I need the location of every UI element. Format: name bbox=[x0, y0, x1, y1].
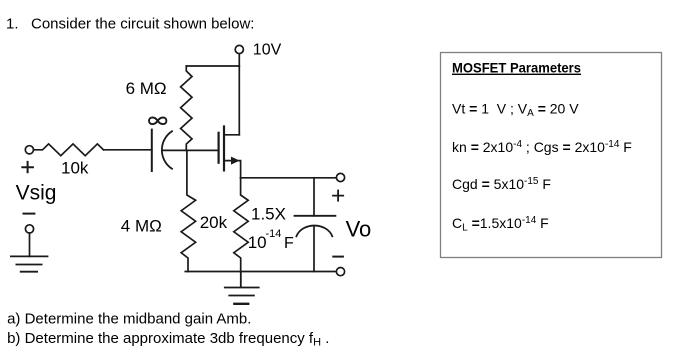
box border bbox=[441, 53, 662, 258]
capacitor CL curved bottom plate bbox=[296, 226, 332, 237]
svg-text:a) Determine the midband gain: a) Determine the midband gain Amb. bbox=[7, 311, 251, 328]
svg-text:6 MΩ: 6 MΩ bbox=[126, 79, 167, 98]
svg-text:20k: 20k bbox=[200, 213, 228, 232]
wire output horizontal bbox=[241, 177, 337, 179]
capacitor Cin infinity left plate bbox=[151, 130, 153, 171]
bottom questions text bbox=[7, 304, 329, 348]
svg-text:10V: 10V bbox=[253, 41, 282, 58]
wire gate horizontal from capacitor to gate bbox=[163, 149, 218, 151]
svg-text:10k: 10k bbox=[61, 159, 89, 178]
plus sign output bbox=[333, 191, 343, 201]
capacitor CL top wire bbox=[313, 178, 315, 216]
resistor R3 20k vertical zigzag bbox=[234, 178, 248, 272]
svg-text:10: 10 bbox=[248, 233, 267, 252]
wire bottom rail bbox=[185, 271, 336, 273]
node input lower terminal circle bbox=[25, 225, 33, 233]
node VDD terminal circle 10V bbox=[235, 45, 243, 53]
ground input bbox=[11, 256, 48, 271]
svg-text:4 MΩ: 4 MΩ bbox=[121, 217, 162, 236]
node output terminal top circle bbox=[336, 173, 344, 181]
svg-text:Vt = 1 V ; VA = 20 V: Vt = 1 V ; VA = 20 V bbox=[452, 100, 579, 119]
MOSFET parameters box bbox=[441, 53, 662, 258]
transistor Q1 channel bar bbox=[223, 127, 225, 171]
title text "1. Consider the circuit shown below:" bbox=[6, 16, 254, 33]
svg-text:Cgd = 5x10-15 F: Cgd = 5x10-15 F bbox=[452, 176, 551, 192]
overbar on Amb bbox=[233, 303, 249, 305]
resistor R1 6M ohm vertical zigzag bbox=[181, 66, 192, 150]
plus sign input bbox=[22, 162, 33, 172]
wire top horizontal to 6M resistor bbox=[186, 65, 239, 67]
wire input lower terminal to ground bbox=[29, 233, 31, 256]
svg-text:1.: 1. bbox=[6, 16, 19, 33]
wire VDD vertical to drain bbox=[238, 54, 240, 135]
capacitor Cin infinity right curved plate bbox=[162, 131, 172, 169]
svg-text:F: F bbox=[284, 235, 294, 252]
svg-text:b) Determine the approximate 3: b) Determine the approximate 3db frequen… bbox=[7, 330, 329, 349]
node output terminal bottom circle bbox=[336, 268, 344, 276]
resistor Rsig 10k horizontal zigzag bbox=[34, 144, 104, 156]
capacitor CL top plate bbox=[295, 215, 336, 217]
svg-text:CL =1.5x10-14 F: CL =1.5x10-14 F bbox=[452, 215, 549, 234]
svg-text:Consider the circuit shown bel: Consider the circuit shown below: bbox=[31, 16, 254, 33]
capacitor CL bottom wire bbox=[313, 226, 315, 272]
svg-text:Vsig: Vsig bbox=[16, 181, 57, 204]
minus sign input bbox=[24, 213, 35, 215]
transistor Q1 drain lead bbox=[225, 134, 239, 136]
transistor Q1 source arrow bbox=[231, 157, 240, 165]
wire input from 10k to capacitor bbox=[104, 149, 152, 151]
svg-text:MOSFET Parameters: MOSFET Parameters bbox=[452, 60, 581, 76]
svg-text:-14: -14 bbox=[266, 228, 282, 240]
transistor Q1 gate bar bbox=[218, 133, 220, 163]
label infinity on Cin (lemniscate) bbox=[149, 117, 166, 124]
minus sign output bbox=[333, 256, 343, 258]
ground main bbox=[225, 272, 259, 304]
svg-text:kn = 2x10-4 ; Cgs = 2x10-14 F: kn = 2x10-4 ; Cgs = 2x10-14 F bbox=[452, 139, 632, 155]
circuit component labels bbox=[16, 41, 372, 252]
node input terminal circle bbox=[25, 146, 33, 154]
svg-text:1.5X: 1.5X bbox=[251, 204, 286, 223]
resistor R2 4M ohm vertical zigzag bbox=[181, 150, 195, 271]
svg-text:Vo: Vo bbox=[346, 216, 372, 241]
transistor Q1 source lead bbox=[225, 161, 241, 178]
